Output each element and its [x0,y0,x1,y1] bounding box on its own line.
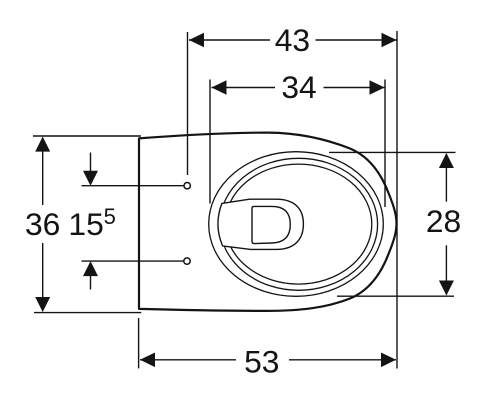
dim 34 arrow right [370,80,385,95]
dim 36 arrow up [35,137,50,152]
dim 43 line left segment [189,39,270,41]
svg-text:34: 34 [281,69,316,105]
dim 15.5 top line to hole [82,185,184,187]
dim 28 line upper segment [445,154,447,202]
dim 34 line left segment [212,87,276,89]
svg-text:15: 15 [68,206,103,242]
dim 28 extension line top [329,151,456,153]
dim 15.5 upper stem [90,153,92,173]
dim 36 extension line bottom [34,312,141,314]
dim 36 extension line top [33,135,141,137]
WC body outline [139,133,397,311]
dim 53 arrow left [140,353,155,368]
fixing hole upper [184,183,190,189]
dim 15.5 arrow down [83,171,98,186]
dim 43 arrow left [189,33,204,48]
dim 34 extension line right [384,80,386,208]
rim inner ellipse E3 [225,164,372,284]
dim 15.5 lower stem [90,275,92,290]
dim 43 line right segment [316,39,397,41]
dim 28 extension line bottom [337,295,454,297]
dim 28 line lower segment [445,245,447,294]
dim 53 line left segment [140,359,236,361]
dim 36 line lower segment [42,243,44,311]
dim 43/53 extension line right [396,31,398,369]
svg-text:28: 28 [426,203,461,239]
dim 43 arrow right [382,33,397,48]
rim outer ellipse E1 [209,152,384,297]
dim 53 extension line left [138,318,140,368]
svg-text:5: 5 [104,204,116,229]
dim 43 extension line left [187,32,189,175]
dim 15.5 arrow up [83,261,98,276]
dim 53 line right segment [289,359,396,361]
dim 28 arrow down [439,281,454,296]
sump inner contour (water spot) [252,206,290,243]
dim 15.5 bottom line to hole [82,260,184,262]
dim 28 arrow up [439,153,454,168]
dim 34 extension line left [209,80,211,204]
rim middle ellipse E2 [220,158,378,290]
dim 53 arrow right [381,353,396,368]
dim 36 arrow down [35,297,50,312]
fixing hole lower [184,258,190,264]
svg-text:43: 43 [275,22,310,58]
dim 34 arrow left [212,80,227,95]
dim 34 line right segment [324,87,385,89]
svg-text:53: 53 [244,344,279,380]
svg-text:36: 36 [25,206,60,242]
dim 36 line upper segment [42,138,44,206]
sump outer contour (funnel + cap) [218,199,303,249]
